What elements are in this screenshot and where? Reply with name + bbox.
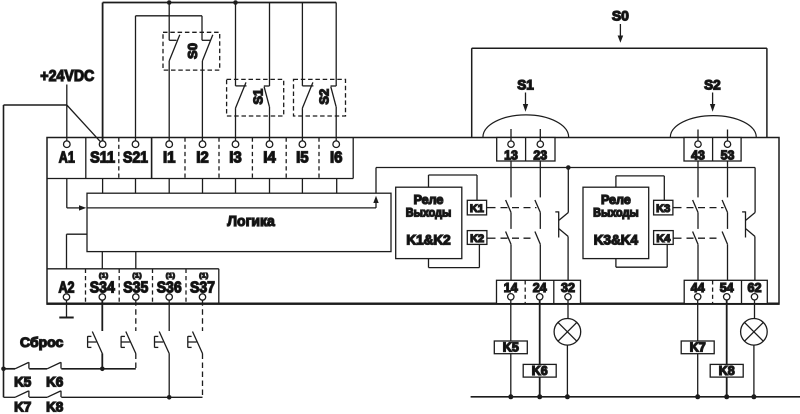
node junction rail to NC chain bbox=[566, 165, 571, 170]
wire top supply line bbox=[103, 2, 337, 4]
terminal 13 bbox=[504, 141, 518, 163]
wire stub I1 to logic bbox=[168, 179, 170, 194]
wire 14 to load K5 bbox=[510, 300, 512, 397]
wire S21 riser bbox=[135, 16, 137, 141]
load contactor K8 bbox=[710, 364, 743, 378]
svg-text:43: 43 bbox=[691, 148, 705, 163]
svg-text:S1: S1 bbox=[251, 89, 266, 105]
svg-text:K3: K3 bbox=[656, 203, 670, 215]
terminal S11 bbox=[90, 141, 115, 166]
terminal I1 bbox=[163, 141, 176, 166]
switch S2 rotated label bbox=[316, 89, 331, 105]
wire stub I2 to logic bbox=[202, 179, 204, 194]
arrow S2 actuation bbox=[710, 93, 715, 112]
node junction I1 top bbox=[167, 0, 172, 5]
arrow S1 actuation bbox=[523, 93, 528, 112]
node junction K7 rail bbox=[695, 394, 700, 399]
terminal 44 bbox=[691, 280, 706, 300]
svg-text:I3: I3 bbox=[229, 149, 242, 166]
wire branch to left rail bbox=[4, 104, 67, 106]
terminal A2 bbox=[59, 280, 75, 300]
relay coil K1 bbox=[467, 200, 486, 215]
contact K7 aux bbox=[14, 391, 31, 414]
terminal 32 bbox=[561, 280, 575, 300]
terminal 24 bbox=[533, 280, 548, 300]
switch S1 rotated label bbox=[251, 89, 266, 105]
terminal I2 bbox=[196, 141, 209, 166]
wire 62 to lamp bbox=[754, 300, 756, 319]
terminal A1 bbox=[59, 141, 75, 166]
svg-text:32: 32 bbox=[561, 280, 575, 295]
wire logic internal flow line bbox=[87, 196, 379, 208]
svg-text:K1&K2: K1&K2 bbox=[406, 233, 450, 248]
svg-text:K1: K1 bbox=[470, 203, 484, 215]
button S1 dome bbox=[483, 115, 569, 137]
switch S2 dashed box bbox=[294, 79, 346, 116]
svg-text:S2: S2 bbox=[704, 78, 721, 93]
terminal 53 bbox=[721, 141, 735, 163]
wire 23 into dome bbox=[539, 129, 541, 141]
svg-text:S0: S0 bbox=[612, 8, 629, 24]
svg-text:54: 54 bbox=[720, 280, 735, 295]
svg-text:14: 14 bbox=[504, 280, 519, 295]
wire 32 to lamp bbox=[567, 300, 569, 319]
node junction K5 rail bbox=[508, 394, 513, 399]
wire 44 to load K7 bbox=[697, 300, 699, 397]
wire 54 to load K8 bbox=[726, 300, 728, 397]
terminal strip A2 S34-S37 bbox=[47, 269, 219, 304]
svg-text:(1): (1) bbox=[99, 273, 108, 280]
+24VDC supply label bbox=[40, 68, 94, 85]
svg-text:K6: K6 bbox=[46, 375, 64, 390]
svg-text:K3&K4: K3&K4 bbox=[594, 233, 639, 248]
switch S0 rotated label bbox=[185, 43, 200, 59]
terminal 23 bbox=[533, 141, 547, 163]
svg-text:A1: A1 bbox=[59, 149, 75, 166]
wire stub S35 to logic bbox=[135, 252, 137, 269]
node junction lamp left rail bbox=[565, 394, 570, 399]
node junction S36 bus2 bbox=[167, 395, 172, 400]
linkage K1 dashed bbox=[487, 207, 537, 209]
switch S1 right contact bbox=[264, 3, 270, 142]
svg-text:I5: I5 bbox=[296, 149, 309, 166]
svg-text:+24VDC: +24VDC bbox=[40, 68, 94, 85]
wire reset bus1 bbox=[4, 368, 136, 370]
terminal strip A1 S11 S21 I1-I6 bbox=[47, 138, 353, 179]
wire 0V bottom rail bbox=[471, 396, 800, 398]
wire stub S34 to logic bbox=[101, 252, 103, 269]
wire 43 into dome bbox=[697, 130, 699, 142]
svg-text:I4: I4 bbox=[263, 149, 276, 166]
load contactor K5 bbox=[494, 341, 527, 355]
terminal S21 bbox=[123, 141, 148, 166]
switch S2 right contact bbox=[331, 3, 337, 142]
push button S36 bbox=[155, 300, 170, 397]
switch S0 right contact bbox=[202, 35, 213, 141]
terminal I3 bbox=[229, 141, 242, 166]
relay coil K3 bbox=[654, 200, 673, 215]
svg-text:K7: K7 bbox=[14, 400, 31, 414]
relay coil K4 bbox=[654, 231, 674, 245]
button S2 label bbox=[704, 78, 721, 93]
svg-text:62: 62 bbox=[748, 280, 762, 295]
svg-text:(1): (1) bbox=[166, 273, 175, 280]
relay coil K2 bbox=[467, 231, 487, 245]
wire stub I3 to logic bbox=[235, 179, 237, 194]
contact chain 23 to 24 bbox=[535, 161, 540, 280]
node junction S34 bus1 bbox=[100, 367, 105, 372]
terminal S35 bbox=[123, 273, 148, 301]
wire S11 riser bbox=[102, 3, 104, 142]
svg-text:K8: K8 bbox=[46, 400, 64, 414]
arrow S0 actuation bbox=[618, 24, 624, 43]
node junction I3 top bbox=[233, 0, 238, 5]
svg-text:13: 13 bbox=[504, 148, 518, 163]
terminal 43 bbox=[691, 141, 705, 163]
svg-text:(1): (1) bbox=[133, 273, 142, 280]
contact NC 61-62 forced guided bbox=[742, 168, 755, 281]
svg-text:K7: K7 bbox=[690, 341, 706, 355]
node junction lamp right rail bbox=[751, 394, 756, 399]
push button S35 optional bbox=[121, 300, 136, 369]
contact K5 aux bbox=[14, 362, 32, 389]
reset label Сброс bbox=[20, 334, 63, 350]
svg-text:K8: K8 bbox=[719, 364, 735, 378]
terminal 54 bbox=[720, 280, 735, 300]
contact K6 aux bbox=[46, 362, 64, 389]
node junction K8 rail bbox=[724, 394, 729, 399]
wire relay block to K3 coil bbox=[616, 176, 664, 200]
wire 13 into dome bbox=[510, 129, 512, 141]
svg-text:S0: S0 bbox=[185, 43, 200, 59]
svg-text:23: 23 bbox=[533, 148, 547, 163]
terminal 14 bbox=[504, 280, 519, 300]
svg-text:I2: I2 bbox=[196, 149, 209, 166]
wire stub I4 to logic bbox=[269, 179, 271, 194]
logic block Логика bbox=[87, 193, 391, 251]
svg-text:53: 53 bbox=[721, 148, 735, 163]
wire relay block to K4 coil bbox=[616, 244, 667, 267]
terminal S37 bbox=[190, 273, 215, 301]
node junction rail bus1 bbox=[1, 367, 6, 372]
lamp indicator left bbox=[554, 319, 581, 397]
svg-text:S11: S11 bbox=[90, 149, 115, 166]
svg-text:S21: S21 bbox=[123, 149, 148, 166]
svg-text:K2: K2 bbox=[470, 233, 484, 245]
svg-text:Выходы: Выходы bbox=[406, 205, 452, 219]
contact chain 13 to 14 bbox=[506, 161, 511, 280]
switch S1 left contact bbox=[236, 3, 247, 142]
svg-text:K4: K4 bbox=[656, 233, 671, 245]
svg-text:S2: S2 bbox=[316, 89, 331, 105]
load contactor K7 bbox=[681, 341, 714, 355]
linkage K3 dashed bbox=[673, 207, 724, 209]
terminal box 44 54 62 bbox=[684, 280, 767, 303]
relay block K1&K2 bbox=[396, 187, 462, 258]
switch S0 left contact bbox=[169, 3, 180, 142]
wire relay block to K2 coil bbox=[429, 244, 480, 267]
wire feedback rail bbox=[376, 167, 755, 169]
ground earth symbol under A2 bbox=[59, 300, 73, 317]
contact chain 43 to 44 bbox=[693, 161, 698, 280]
svg-text:K5: K5 bbox=[503, 341, 519, 355]
linkage K4 dashed bbox=[673, 237, 721, 239]
actuator S0 frame box bbox=[472, 48, 767, 137]
wire relay block to K1 coil bbox=[429, 175, 478, 200]
terminal box 13 23 bbox=[497, 138, 555, 162]
wire S21 to S0 second line bbox=[136, 16, 203, 41]
wire A1 feed into logic with arrow bbox=[67, 179, 87, 211]
button S1 label bbox=[517, 78, 534, 93]
contact NC 31-32 forced guided bbox=[555, 168, 568, 281]
wire A2 step to logic bbox=[67, 234, 88, 269]
wire 53 into dome bbox=[727, 130, 729, 142]
svg-text:(1): (1) bbox=[199, 273, 208, 280]
terminal I4 bbox=[263, 141, 276, 166]
wire stub I5 to logic bbox=[301, 179, 303, 194]
svg-text:I1: I1 bbox=[163, 149, 176, 166]
terminal box 14 24 32 bbox=[497, 280, 581, 303]
device outline safety relay body bbox=[47, 138, 779, 305]
linkage K2 dashed bbox=[487, 237, 534, 239]
emergency stop S0 label bbox=[612, 8, 629, 24]
wire logic to feedback rail riser bbox=[375, 168, 377, 194]
left supply rail bbox=[3, 105, 5, 397]
switch S1 dashed box bbox=[227, 79, 284, 116]
wire +24VDC down to A1 bbox=[66, 85, 68, 142]
wire reset bus2 bbox=[4, 396, 203, 398]
terminal I5 bbox=[296, 141, 309, 166]
svg-text:Логика: Логика bbox=[227, 213, 275, 230]
terminal S34 bbox=[90, 273, 115, 301]
terminal box 43 53 bbox=[684, 138, 741, 162]
svg-text:44: 44 bbox=[691, 280, 706, 295]
svg-text:24: 24 bbox=[533, 280, 548, 295]
push button S37 optional bbox=[188, 300, 203, 397]
wire stub S21 to logic bbox=[135, 179, 137, 194]
wire 24 to load K6 bbox=[539, 300, 541, 397]
svg-text:K6: K6 bbox=[532, 364, 548, 378]
push button S34 reset bbox=[88, 300, 103, 369]
switch S0 dashed box bbox=[163, 32, 220, 70]
terminal 62 bbox=[748, 280, 762, 300]
contact K8 aux bbox=[46, 391, 64, 414]
load contactor K6 bbox=[523, 364, 556, 378]
svg-text:S1: S1 bbox=[517, 78, 534, 93]
svg-text:I6: I6 bbox=[330, 149, 343, 166]
terminal S36 bbox=[157, 273, 182, 301]
wire diagonal to S11 bbox=[67, 105, 101, 142]
node junction K6 rail bbox=[537, 394, 542, 399]
relay block K3&K4 bbox=[583, 187, 649, 258]
button S2 dome bbox=[670, 116, 756, 138]
terminal I6 bbox=[330, 141, 343, 166]
switch S2 left contact bbox=[302, 3, 313, 142]
svg-text:Сброс: Сброс bbox=[20, 334, 63, 350]
wire stub I6 to logic bbox=[336, 179, 338, 194]
lamp indicator right bbox=[741, 319, 768, 397]
svg-text:K5: K5 bbox=[14, 375, 32, 390]
svg-text:Выходы: Выходы bbox=[593, 205, 639, 219]
contact chain 53 to 54 bbox=[722, 161, 727, 280]
wire stub S11 to logic bbox=[102, 179, 104, 194]
